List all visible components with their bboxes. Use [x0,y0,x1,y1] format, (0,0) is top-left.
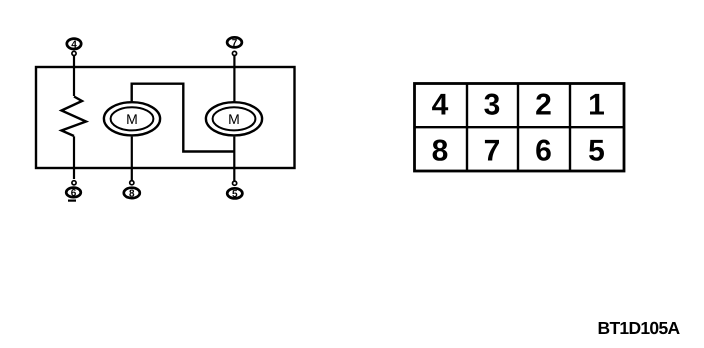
svg-text:6: 6 [71,188,77,199]
motor M1 (left) [104,102,160,135]
svg-text:5: 5 [232,189,238,200]
wire M2 bottom to pin 5 [233,137,235,181]
connector pin table [415,84,625,172]
svg-text:5: 5 [588,135,605,168]
pin 8 circle [124,188,140,200]
component box [36,67,295,168]
pin 8 terminal dot [130,181,134,185]
svg-text:8: 8 [129,189,135,200]
motor M2 (right) [206,102,262,135]
pin 6 terminal dot [72,181,76,185]
wire M1 bottom to pin 8 [131,137,133,181]
svg-text:M: M [228,111,240,127]
pin 7 terminal dot [232,51,236,55]
svg-text:3: 3 [484,89,501,122]
svg-text:1: 1 [588,89,605,122]
pin 5 circle [227,188,242,200]
pin 6 circle [66,188,81,199]
svg-text:2: 2 [535,89,552,122]
wire pin7 to M2 top [233,56,235,101]
pin 4 circle [67,39,81,51]
pin 7 circle [227,37,242,49]
svg-text:8: 8 [432,135,449,168]
pin 4 terminal dot [72,51,76,55]
svg-text:M: M [126,111,138,127]
svg-text:4: 4 [71,39,77,50]
wire resistor to pin 6 [73,136,75,179]
wire pin4 to resistor [73,56,75,96]
svg-text:4: 4 [432,89,449,122]
svg-text:7: 7 [232,38,238,49]
pin 5 terminal dot [233,181,237,185]
svg-text:7: 7 [484,135,501,168]
resistor [62,97,87,137]
svg-text:BT1D105A: BT1D105A [598,318,681,338]
svg-text:6: 6 [535,135,552,168]
wire M1 top jog to M2 bottom node [132,84,235,152]
pin 6 underline [68,200,76,202]
